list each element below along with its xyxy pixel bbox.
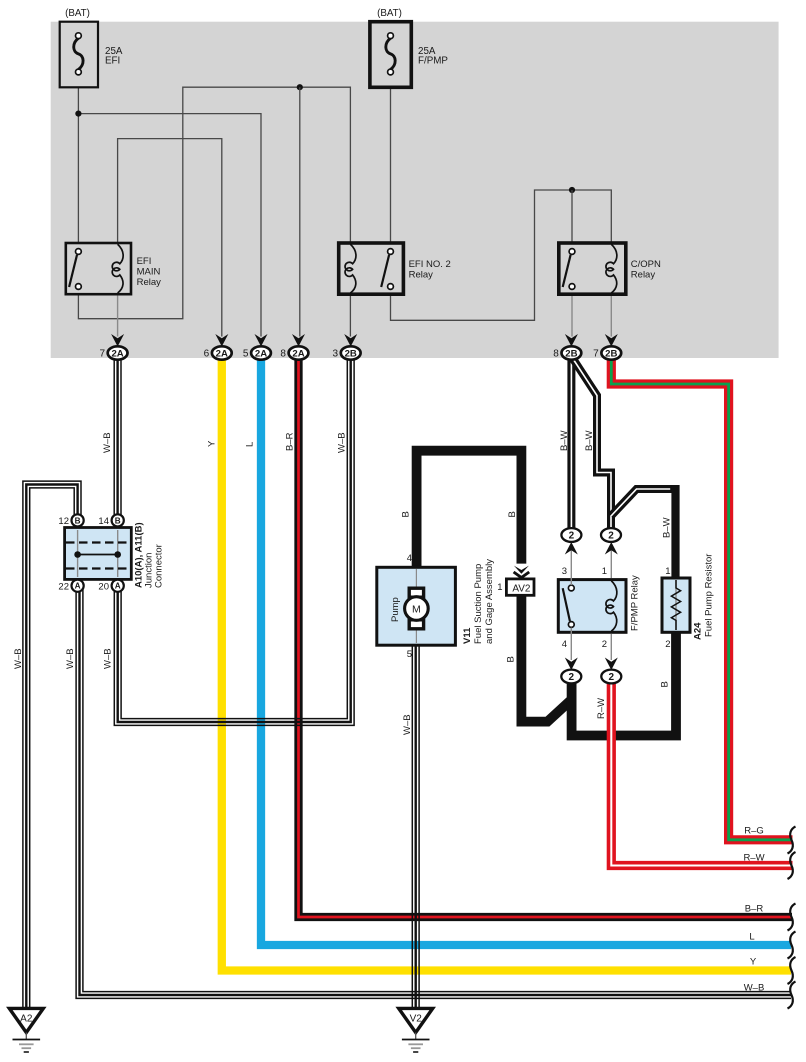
svg-text:5: 5 — [407, 649, 412, 660]
svg-text:B: B — [660, 681, 671, 687]
svg-text:2: 2 — [609, 672, 615, 683]
svg-text:L: L — [245, 442, 256, 447]
svg-text:MAIN: MAIN — [137, 266, 161, 277]
svg-text:2B: 2B — [565, 348, 577, 359]
svg-text:V11: V11 — [462, 627, 473, 644]
svg-text:(BAT): (BAT) — [377, 8, 402, 19]
svg-text:F/PMP: F/PMP — [418, 56, 448, 67]
svg-text:and Gage Assembly: and Gage Assembly — [484, 559, 495, 644]
svg-text:Fuel Pump Resistor: Fuel Pump Resistor — [704, 554, 715, 637]
svg-text:Relay: Relay — [631, 270, 656, 281]
svg-text:B: B — [401, 511, 412, 517]
svg-text:W–B: W–B — [337, 432, 348, 453]
svg-text:EFI: EFI — [105, 56, 120, 67]
svg-text:12: 12 — [58, 516, 69, 527]
svg-text:2A: 2A — [111, 348, 123, 359]
svg-text:Relay: Relay — [409, 270, 434, 281]
svg-text:EFI NO. 2: EFI NO. 2 — [409, 259, 451, 270]
svg-text:2: 2 — [602, 639, 607, 650]
svg-text:W–B: W–B — [102, 432, 113, 453]
svg-text:W–B: W–B — [13, 648, 24, 669]
svg-text:F/PMP Relay: F/PMP Relay — [629, 575, 640, 631]
svg-text:L: L — [749, 932, 754, 943]
svg-text:2A: 2A — [255, 348, 267, 359]
svg-text:4: 4 — [407, 553, 412, 564]
svg-text:2: 2 — [608, 531, 614, 542]
svg-text:R–W: R–W — [743, 853, 764, 864]
svg-text:(BAT): (BAT) — [65, 8, 90, 19]
svg-text:3: 3 — [562, 566, 567, 577]
svg-text:2B: 2B — [345, 348, 357, 359]
svg-text:Y: Y — [207, 440, 218, 447]
svg-text:1: 1 — [497, 582, 502, 593]
svg-text:B: B — [507, 511, 518, 517]
svg-text:6: 6 — [204, 348, 210, 359]
svg-text:R–G: R–G — [744, 826, 764, 837]
svg-text:A2: A2 — [20, 1014, 33, 1025]
svg-text:B–W: B–W — [584, 430, 595, 451]
svg-text:8: 8 — [280, 348, 286, 359]
svg-text:V2: V2 — [410, 1014, 423, 1025]
svg-text:5: 5 — [243, 348, 249, 359]
svg-text:1: 1 — [602, 566, 607, 577]
svg-text:A: A — [115, 582, 121, 591]
svg-text:7: 7 — [593, 348, 599, 359]
svg-text:4: 4 — [562, 639, 567, 650]
svg-text:20: 20 — [98, 582, 109, 593]
svg-text:8: 8 — [553, 348, 559, 359]
svg-text:W–B: W–B — [744, 983, 765, 994]
svg-text:B–W: B–W — [559, 430, 570, 451]
svg-text:C/OPN: C/OPN — [631, 259, 661, 270]
svg-text:2: 2 — [569, 531, 575, 542]
svg-text:A: A — [75, 582, 81, 591]
svg-text:R–W: R–W — [596, 698, 607, 719]
svg-text:22: 22 — [58, 582, 69, 593]
svg-text:2B: 2B — [605, 348, 617, 359]
svg-text:M: M — [412, 603, 421, 615]
svg-text:Relay: Relay — [137, 277, 162, 288]
svg-text:2A: 2A — [216, 348, 228, 359]
svg-text:B–W: B–W — [662, 517, 673, 538]
svg-text:2: 2 — [665, 639, 670, 650]
svg-text:A24: A24 — [693, 622, 704, 640]
svg-text:W–B: W–B — [103, 648, 114, 669]
svg-text:B: B — [75, 516, 81, 525]
svg-text:Fuel Suction Pump: Fuel Suction Pump — [473, 564, 484, 644]
svg-text:Y: Y — [750, 957, 757, 968]
svg-text:W–B: W–B — [65, 648, 76, 669]
svg-text:B: B — [506, 656, 517, 662]
svg-text:14: 14 — [98, 516, 109, 527]
svg-text:EFI: EFI — [137, 256, 152, 267]
svg-text:7: 7 — [99, 348, 105, 359]
svg-text:Pump: Pump — [390, 597, 401, 622]
svg-text:B: B — [115, 516, 121, 525]
svg-text:B–R: B–R — [285, 432, 296, 451]
svg-text:W–B: W–B — [402, 714, 413, 735]
svg-text:B–R: B–R — [745, 904, 764, 915]
svg-text:Connector: Connector — [154, 544, 165, 588]
svg-text:2A: 2A — [292, 348, 304, 359]
svg-text:2: 2 — [569, 672, 575, 683]
svg-text:1: 1 — [665, 566, 670, 577]
svg-text:3: 3 — [333, 348, 339, 359]
svg-text:AV2: AV2 — [512, 583, 531, 594]
